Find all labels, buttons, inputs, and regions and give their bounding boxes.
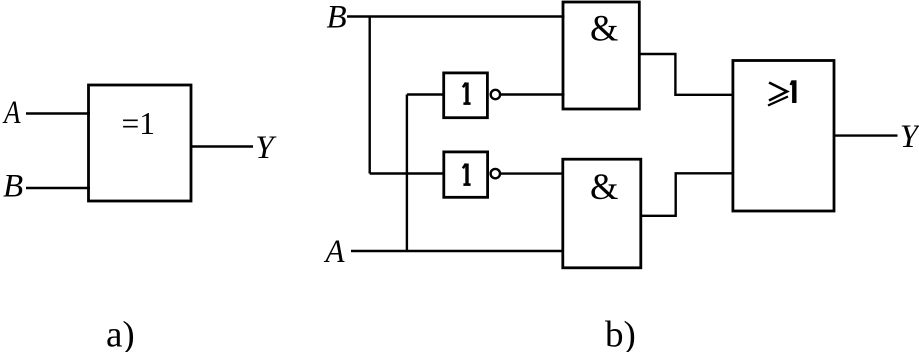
svg-text:Y: Y xyxy=(900,119,919,155)
wire vertical from B down to NOT2 input xyxy=(369,17,371,174)
OR gate U6 label >=1 xyxy=(768,80,794,105)
NOT gate U2 label 1 xyxy=(463,83,471,104)
wire A branch into NOT1 xyxy=(407,93,445,95)
NOT gate U2 body xyxy=(444,73,488,118)
wire input B xyxy=(26,187,90,189)
wire AND2 output to OR bottom input xyxy=(641,173,734,216)
svg-text:A: A xyxy=(324,234,346,270)
wire vertical from A up to NOT1 input xyxy=(406,95,408,252)
wire input A to AND2 xyxy=(351,250,564,252)
wire B branch into NOT2 xyxy=(370,172,445,174)
svg-text:b): b) xyxy=(605,315,636,352)
svg-text:A: A xyxy=(2,95,21,131)
wire input B to AND1 xyxy=(347,15,565,17)
wire AND1 output to OR top input xyxy=(639,54,734,95)
NOT gate U3 body xyxy=(444,152,488,197)
svg-text:=1: =1 xyxy=(122,106,156,141)
XOR gate U1 body xyxy=(89,85,192,201)
OR gate U6 body xyxy=(733,61,834,212)
svg-text:&: & xyxy=(590,8,618,49)
svg-text:B: B xyxy=(327,0,347,35)
wire NOT2 output to AND2 xyxy=(500,172,564,174)
svg-text:&: & xyxy=(590,166,618,207)
AND gate U5 body xyxy=(563,159,641,268)
NOT gate U3 label 1 xyxy=(463,164,471,185)
wire NOT1 output to AND1 xyxy=(500,93,564,95)
wire output Y xyxy=(834,134,898,136)
NOT gate U3 inversion bubble xyxy=(491,169,500,178)
AND gate U4 body xyxy=(563,2,639,109)
NOT gate U2 inversion bubble xyxy=(491,90,500,99)
wire output Y xyxy=(191,145,253,147)
wire input A xyxy=(26,112,90,114)
svg-text:B: B xyxy=(3,168,23,204)
svg-text:a): a) xyxy=(106,315,135,352)
